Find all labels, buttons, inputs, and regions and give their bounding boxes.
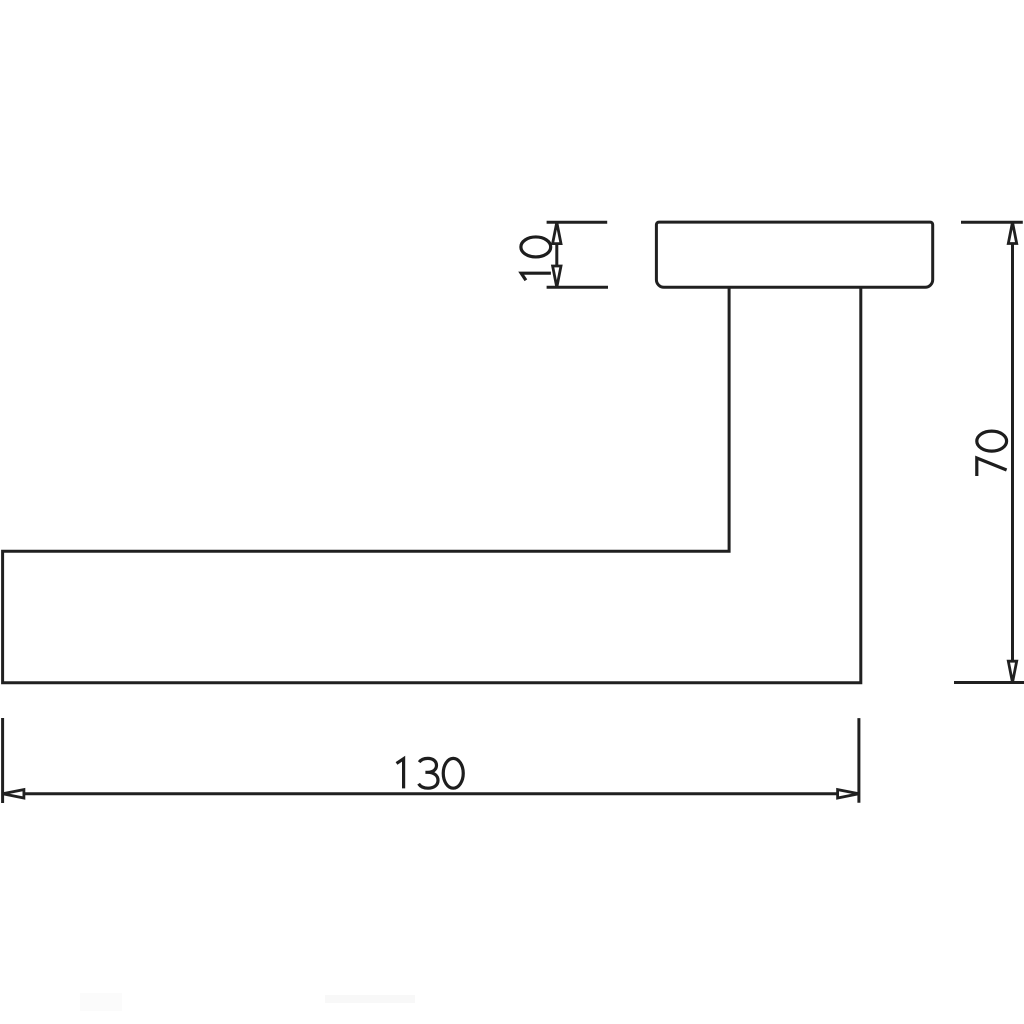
dim10 arrow down [553,266,561,287]
dim130 arrow right [838,790,859,798]
dim70 dimension line [1011,222,1014,682]
dim70 arrow down [1008,661,1016,682]
dim10 extension line bottom [547,286,608,289]
rosette (rounded mounting plate) [656,222,932,287]
label 70 (rotated) [977,431,1007,476]
label 130 [397,758,464,788]
dim130 arrow left [3,790,24,798]
label 10 (rotated) [521,237,551,280]
dim130 dimension line [3,792,859,795]
dim70 extension line bottom [954,681,1024,684]
handle outline (neck and grip) [3,287,861,682]
faint watermark blob [80,993,122,1011]
faint watermark streak [325,995,415,1003]
dim130 extension line right [857,718,860,803]
dim130 extension line left [1,718,4,803]
dim10 arrow up [553,222,561,243]
dim70 arrow up [1008,222,1016,243]
dim10 dimension line [555,222,558,287]
dim70 extension line top [961,221,1023,224]
dim10 extension line top [547,221,608,224]
